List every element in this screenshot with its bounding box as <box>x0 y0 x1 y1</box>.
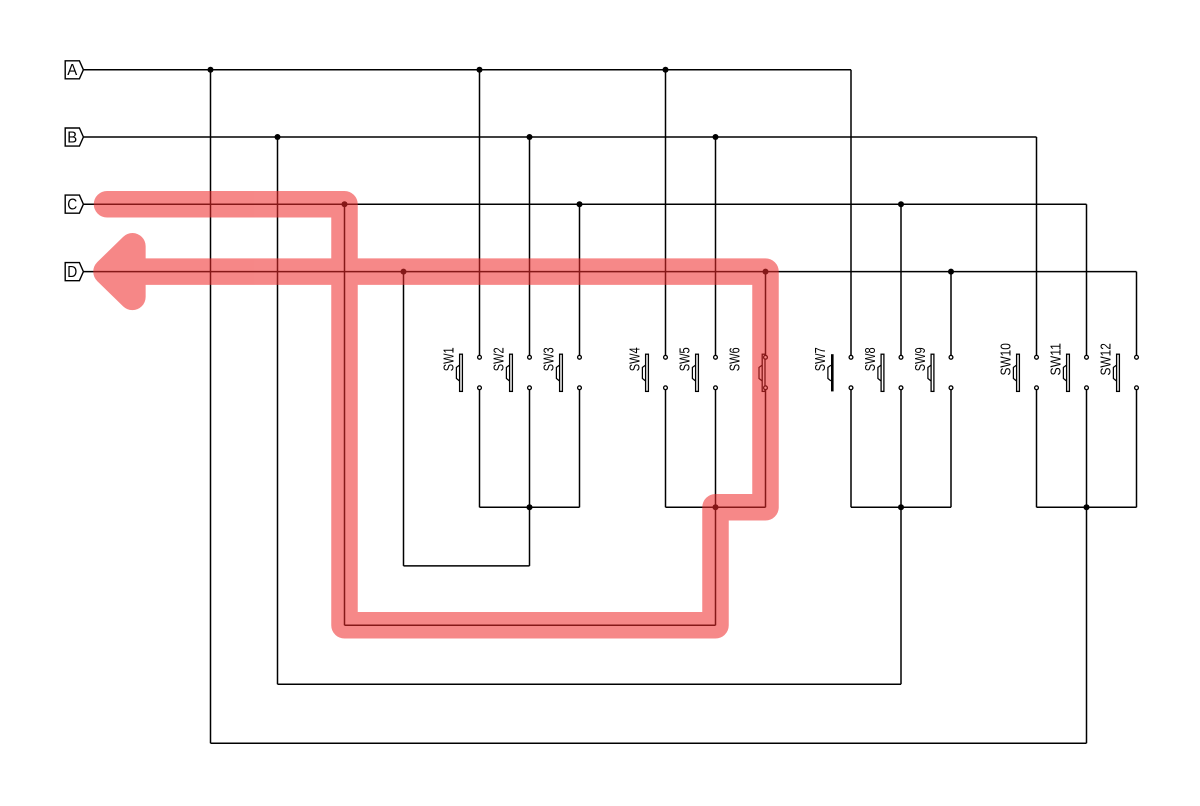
svg-text:SW11: SW11 <box>1048 343 1065 376</box>
junction at (901,204) <box>898 201 904 207</box>
wire: group 2 drop <box>715 507 717 625</box>
wire: group 3 drop <box>900 507 902 684</box>
wire: SW10 bottom lead <box>1036 390 1038 507</box>
push button SW9 <box>912 347 953 391</box>
wire: group 2 bottom return <box>345 624 716 626</box>
svg-text:SW5: SW5 <box>677 347 694 371</box>
push button SW8 <box>862 347 903 391</box>
wire: group 2 common rail <box>666 506 766 508</box>
wire: group 1 common rail <box>480 506 580 508</box>
wire: SW3 bottom lead <box>579 390 581 507</box>
wire: group 4 riser to bus A <box>210 70 212 744</box>
wire: group 2 riser to bus C <box>344 204 346 625</box>
wire: SW5 column from bus B <box>715 137 717 355</box>
arrowhead into D <box>107 246 133 297</box>
net label B <box>65 128 83 146</box>
junction at (277.5,137) <box>275 134 281 140</box>
wire: bus D corner drop to SW12 <box>1136 272 1138 356</box>
net label A <box>65 61 83 79</box>
wire: bus D horizontal <box>83 271 1136 273</box>
svg-text:SW2: SW2 <box>491 347 508 371</box>
wire: SW8 column from bus C <box>900 204 902 355</box>
svg-text:A: A <box>67 62 78 79</box>
wire: group 3 bottom return <box>278 683 902 685</box>
wire: bus B horizontal <box>83 136 1036 138</box>
wire: group 3 riser to bus B <box>277 137 279 684</box>
junction at (765.5,272) <box>763 269 769 275</box>
svg-text:SW10: SW10 <box>998 343 1015 376</box>
junction at (665.5,70) <box>663 67 669 73</box>
wire: SW9 column from bus D <box>950 272 952 356</box>
highlighted ghost-current path C to D <box>107 204 766 625</box>
push button SW5 <box>677 347 718 391</box>
push button SW2 <box>491 347 532 391</box>
push button SW11 <box>1048 343 1089 391</box>
svg-text:SW9: SW9 <box>912 347 929 371</box>
junction at (403.5,272) <box>401 269 407 275</box>
junction at (715.5,137) <box>713 134 719 140</box>
svg-text:SW3: SW3 <box>541 347 558 371</box>
junction at (210.5,70) <box>208 67 214 73</box>
wire: SW11 bottom lead <box>1086 390 1088 507</box>
wire: SW9 bottom lead <box>950 390 952 507</box>
push button SW1 <box>441 347 482 391</box>
junction at (951,272) <box>948 269 954 275</box>
svg-text:SW12: SW12 <box>1098 343 1115 376</box>
wire: group 4 bottom return <box>211 742 1087 744</box>
wire: bus A horizontal <box>83 69 851 71</box>
wire: SW7 bottom lead <box>850 390 852 507</box>
wire: SW1 bottom lead <box>479 390 481 507</box>
wire: bus A corner drop to SW7 <box>850 70 852 355</box>
junction at (529.5,507) <box>527 504 533 510</box>
svg-text:D: D <box>67 264 77 281</box>
push button SW4 <box>627 347 668 391</box>
svg-text:SW8: SW8 <box>862 347 879 371</box>
junction at (1086.5,507) <box>1084 504 1090 510</box>
svg-text:SW1: SW1 <box>441 347 458 371</box>
wire: group 1 bottom return <box>404 565 530 567</box>
svg-text:SW7: SW7 <box>812 347 829 371</box>
junction at (579.5,204) <box>577 201 583 207</box>
svg-text:SW6: SW6 <box>727 347 744 371</box>
junction at (344.5,204) <box>342 201 348 207</box>
junction at (901,507) <box>898 504 904 510</box>
net label C <box>65 195 83 213</box>
junction at (479.5,70) <box>477 67 483 73</box>
wire: SW6 bottom lead <box>765 390 767 507</box>
wire: group 4 common rail <box>1037 506 1137 508</box>
junction at (715.5,507) <box>713 504 719 510</box>
wire: group 3 common rail <box>851 506 951 508</box>
net label D <box>65 263 83 281</box>
push button SW6 <box>727 347 768 391</box>
svg-text:B: B <box>67 129 77 146</box>
wire: bus B corner drop to SW10 <box>1036 137 1038 355</box>
wire: group 1 drop <box>529 507 531 566</box>
wire: SW12 bottom lead <box>1136 390 1138 507</box>
wire: SW6 column from bus D <box>765 272 767 356</box>
wire: SW3 column from bus C <box>579 204 581 355</box>
wire: SW2 column from bus B <box>529 137 531 355</box>
wire: group 1 riser to bus D <box>403 272 405 566</box>
wire: SW8 bottom lead <box>900 390 902 507</box>
push button SW7 <box>812 347 853 391</box>
wire: group 4 drop <box>1086 507 1088 743</box>
wire: bus C corner drop to SW11 <box>1086 204 1088 355</box>
wire: SW2 bottom lead <box>529 390 531 507</box>
junction at (529.5,137) <box>527 134 533 140</box>
push button SW10 <box>998 343 1039 391</box>
svg-text:SW4: SW4 <box>627 347 644 371</box>
wire: SW4 bottom lead <box>665 390 667 507</box>
svg-text:C: C <box>67 197 77 214</box>
wire: SW5 bottom lead <box>715 390 717 507</box>
push button SW12 <box>1098 343 1139 391</box>
wire: SW4 column from bus A <box>665 70 667 355</box>
wire: bus C horizontal <box>83 203 1086 205</box>
wire: SW1 column from bus A <box>479 70 481 355</box>
push button SW3 <box>541 347 582 391</box>
